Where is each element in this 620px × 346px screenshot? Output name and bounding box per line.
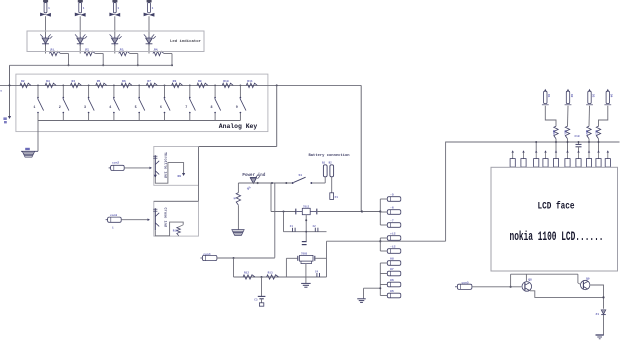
- svg-text:S1: S1: [299, 174, 303, 177]
- svg-text:Q9: Q9: [586, 277, 590, 280]
- svg-text:R11: R11: [247, 80, 253, 83]
- svg-text:Cruse ind: Cruse ind: [163, 208, 168, 227]
- svg-text:R8: R8: [173, 80, 177, 83]
- svg-text:R9: R9: [178, 175, 182, 178]
- svg-text:8: 8: [211, 106, 213, 110]
- svg-text:R12: R12: [244, 272, 249, 275]
- svg-text:R2: R2: [21, 80, 25, 83]
- svg-text:con3: con3: [110, 214, 117, 217]
- svg-text:5: 5: [135, 106, 137, 110]
- svg-text:nokia 1100 LCD......: nokia 1100 LCD......: [510, 231, 604, 245]
- svg-text:6: 6: [160, 106, 162, 110]
- svg-text:-5: -5: [390, 193, 394, 197]
- svg-text:2: 2: [59, 106, 61, 110]
- svg-text:+12: +12: [390, 232, 396, 236]
- svg-text:D2: D2: [570, 94, 573, 98]
- svg-text:R3: R3: [46, 80, 50, 83]
- svg-text:R22: R22: [585, 130, 588, 135]
- svg-text:R5: R5: [97, 80, 101, 83]
- svg-text:7: 7: [185, 106, 187, 110]
- svg-text:D3: D3: [591, 94, 594, 98]
- svg-text:C3: C3: [254, 299, 258, 302]
- svg-text:R7: R7: [147, 80, 151, 83]
- svg-text:9: 9: [236, 106, 238, 110]
- svg-text:3: 3: [84, 106, 86, 110]
- svg-text:C1: C1: [290, 225, 294, 228]
- svg-text:Battery connection: Battery connection: [309, 153, 351, 158]
- svg-text:D4: D4: [610, 94, 613, 98]
- svg-text:D1: D1: [547, 94, 550, 98]
- svg-text:B1: B1: [322, 161, 326, 164]
- svg-text:R9: R9: [198, 80, 202, 83]
- svg-text:Led indicator: Led indicator: [170, 39, 202, 44]
- svg-text:R10: R10: [223, 80, 229, 83]
- svg-text:Analog Key: Analog Key: [219, 123, 258, 131]
- svg-text:7812: 7812: [303, 205, 310, 208]
- svg-text:C2: C2: [313, 225, 317, 228]
- svg-text:con2: con2: [112, 162, 119, 165]
- svg-text:06: 06: [390, 278, 394, 282]
- svg-text:R23: R23: [594, 130, 597, 135]
- svg-text:B2: B2: [329, 161, 333, 164]
- svg-text:4: 4: [109, 106, 111, 110]
- svg-text:Z1: Z1: [596, 313, 600, 316]
- svg-text:R4: R4: [71, 80, 75, 83]
- svg-text:-12: -12: [390, 245, 396, 249]
- svg-text:R20: R20: [552, 130, 555, 135]
- svg-text:R21: R21: [563, 130, 566, 135]
- svg-text:C10: C10: [575, 135, 580, 138]
- svg-text:05: 05: [390, 289, 394, 293]
- svg-text:1: 1: [33, 106, 35, 110]
- svg-text:F1: F1: [335, 196, 339, 199]
- svg-text:Q8: Q8: [528, 278, 532, 281]
- svg-text:Throttle ind: Throttle ind: [163, 152, 168, 178]
- svg-text:R6: R6: [122, 80, 126, 83]
- svg-text:LCD face: LCD face: [538, 201, 575, 212]
- svg-text:C4: C4: [315, 271, 319, 274]
- svg-text:-7: -7: [390, 219, 394, 223]
- svg-text:R: R: [233, 198, 236, 200]
- svg-text:07: 07: [390, 267, 394, 271]
- svg-text:-6: -6: [390, 206, 394, 210]
- svg-text:08: 08: [390, 257, 394, 261]
- svg-text:R13: R13: [268, 272, 273, 275]
- svg-text:R10: R10: [173, 230, 178, 233]
